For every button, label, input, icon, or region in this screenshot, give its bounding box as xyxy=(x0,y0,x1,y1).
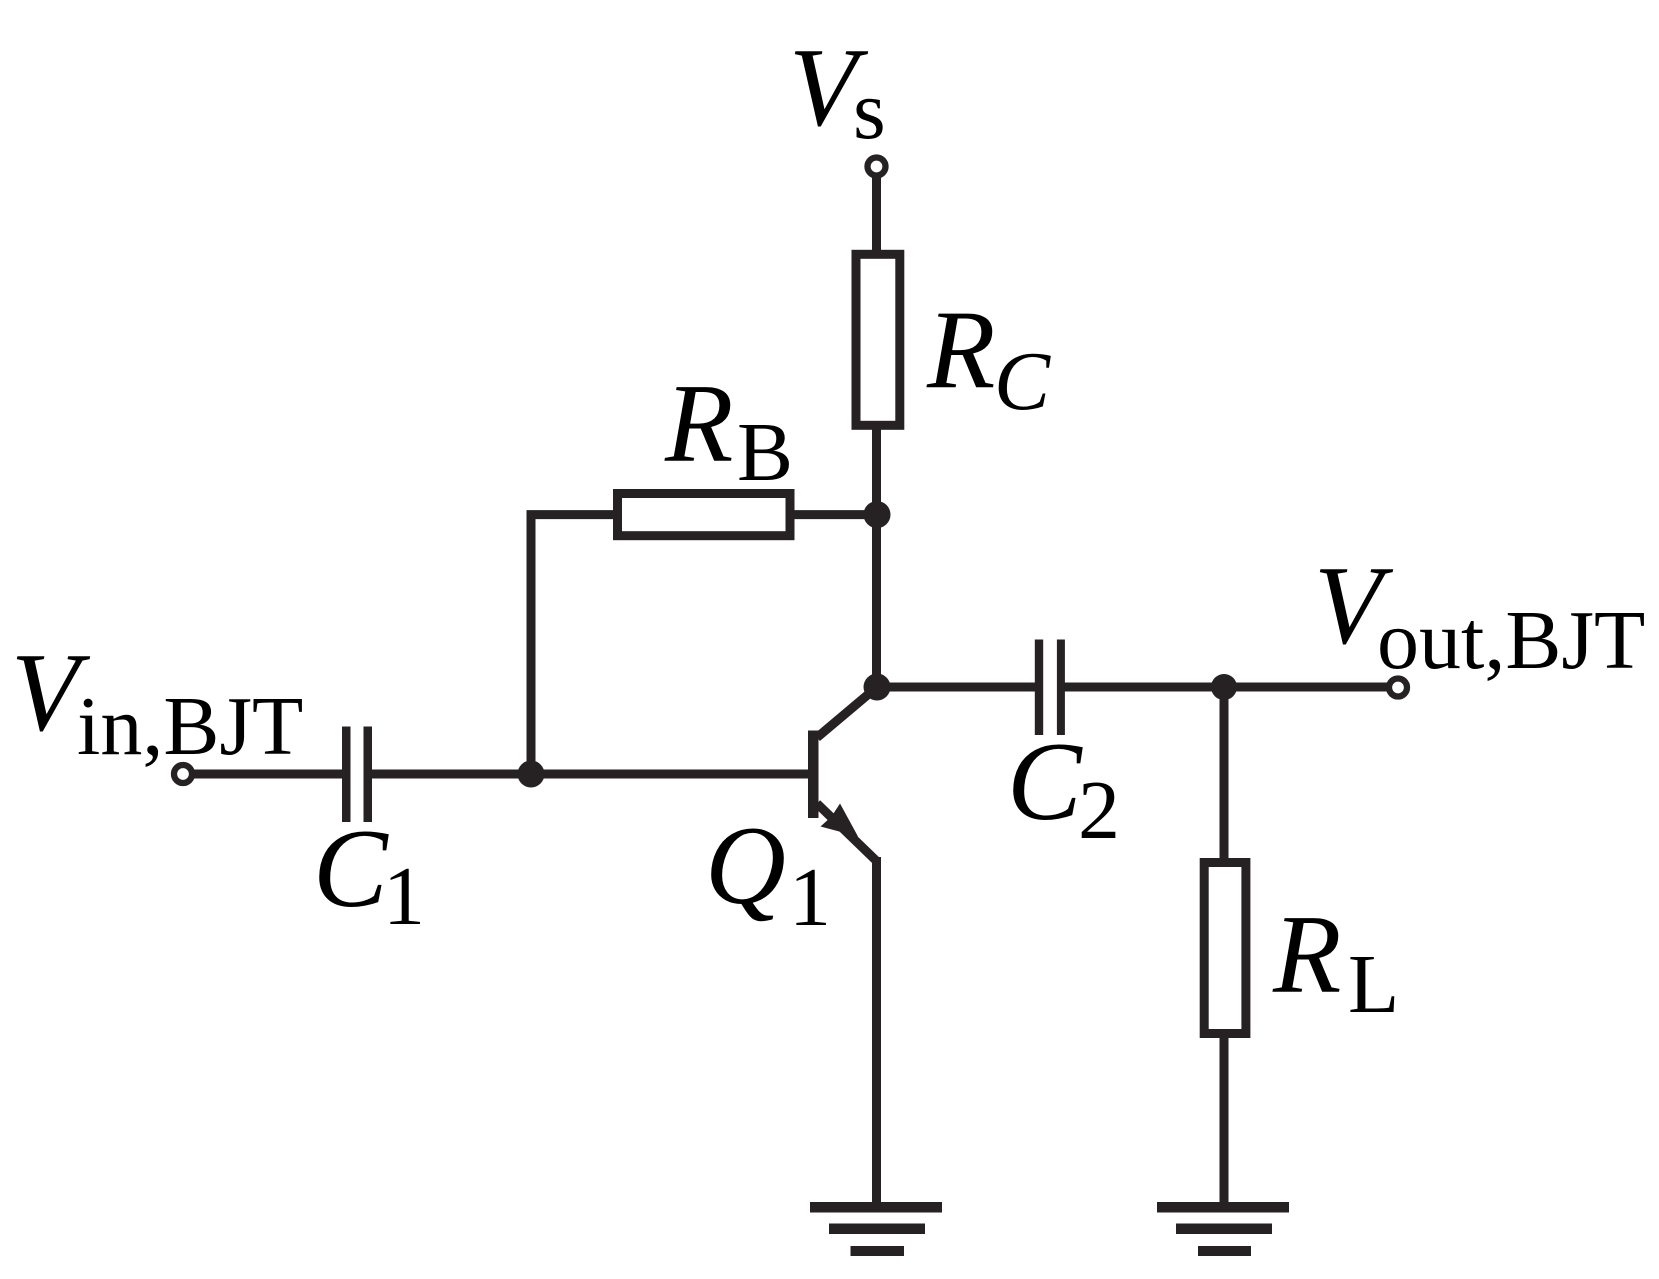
svg-text:C: C xyxy=(1007,720,1083,844)
svg-text:out,BJT: out,BJT xyxy=(1377,594,1645,687)
svg-text:1: 1 xyxy=(789,851,831,944)
svg-text:1: 1 xyxy=(383,850,425,943)
svg-text:C: C xyxy=(313,807,389,931)
svg-text:Q: Q xyxy=(705,804,786,928)
svg-text:R: R xyxy=(926,289,995,413)
svg-text:L: L xyxy=(1348,938,1399,1031)
svg-text:2: 2 xyxy=(1078,764,1120,857)
svg-text:in,BJT: in,BJT xyxy=(77,680,303,773)
svg-text:R: R xyxy=(664,362,733,486)
svg-text:B: B xyxy=(737,406,793,499)
svg-text:C: C xyxy=(994,335,1051,428)
svg-text:R: R xyxy=(1272,893,1341,1017)
svg-text:s: s xyxy=(853,64,886,157)
